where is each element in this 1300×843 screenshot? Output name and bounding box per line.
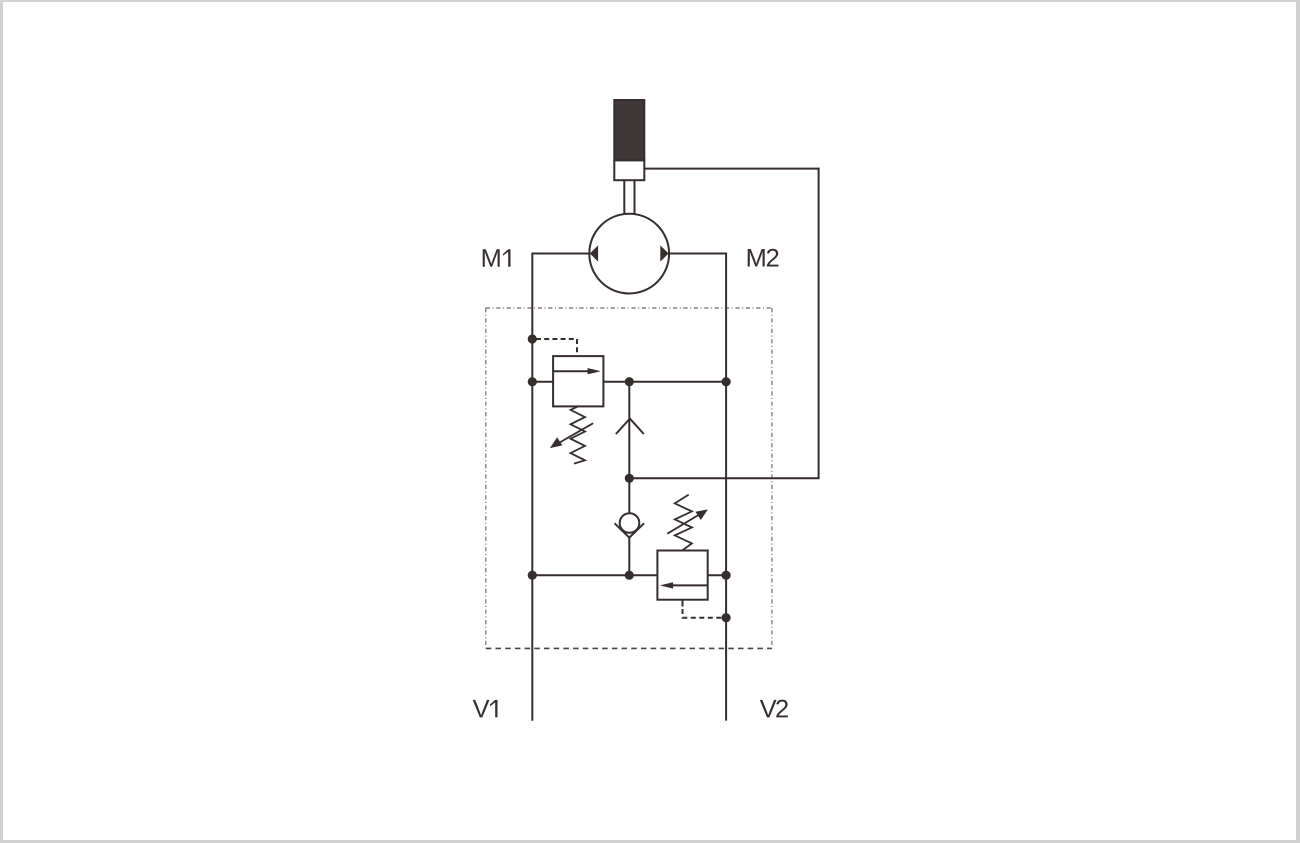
junction node D (RV1 outlet on V2) [722, 377, 731, 386]
wire node B to relief valve RV1 inlet [532, 381, 553, 383]
wire relief valve RV1 outlet to V2 rail [603, 381, 726, 383]
relief valve RV1 flow arrow (right) [554, 368, 601, 374]
junction node E (brake return tee) [625, 474, 634, 483]
relief valve RV2 body [657, 551, 707, 600]
valve block enclosure (dash-dot boundary) [486, 308, 772, 646]
pilot line (dashed) node A to relief valve RV1 spring side [536, 339, 577, 355]
wire M1 port to V1 rail corner [532, 253, 590, 255]
port label M1 [483, 249, 511, 266]
relief valve RV1 body [553, 356, 603, 406]
junction node H (RV2 outlet on V2) [722, 571, 731, 580]
wire relief valve RV2 outlet to V2 rail [708, 574, 726, 576]
junction node I (RV2 pilot on V2) [722, 613, 731, 622]
relief valve RV2 spring (zigzag) [675, 495, 692, 551]
check valve CV1 (ball and seat) [615, 513, 644, 537]
flow direction arrow (chevron) on check branch [616, 419, 644, 434]
relief valve RV2 flow arrow (left) [660, 582, 708, 588]
wire V1 vertical rail [531, 253, 533, 721]
port label V2 [760, 700, 788, 718]
junction node G (rail tee on V1) [528, 571, 537, 580]
port label V1 [473, 700, 498, 717]
junction node C (RV1 outlet / check branch) [625, 377, 634, 386]
port label M2 [748, 249, 779, 267]
relief valve RV2 adjustment arrow [667, 509, 708, 533]
relief valve RV1 adjustment arrow [550, 423, 593, 448]
valve block bottom edge (dashed) [486, 647, 772, 649]
brake cylinder (top actuator) [614, 100, 644, 180]
motor left flow triangle [590, 245, 598, 261]
wire V1 rail to relief valve RV2 inlet [532, 574, 657, 576]
junction node A (pilot tap on V1) [528, 334, 537, 343]
wire brake drain vertical right [818, 168, 820, 479]
wire V2 vertical rail [725, 253, 727, 721]
wire check valve branch vertical [628, 382, 630, 514]
wire check valve outlet vertical [628, 537, 630, 575]
hydraulic motor M (circle) [589, 214, 669, 294]
wire M2 port to V2 rail corner [669, 253, 727, 255]
motor shaft (double line) [624, 180, 634, 215]
junction node F (check outlet tee) [625, 571, 634, 580]
motor right flow triangle [660, 245, 668, 261]
relief valve RV1 spring (zigzag) [571, 406, 586, 463]
pilot line (dashed) relief valve RV2 to node I [683, 600, 723, 618]
wire brake drain horizontal top [644, 168, 818, 170]
junction node B (RV1 inlet on V1) [528, 377, 537, 386]
wire brake drain return horizontal [629, 477, 819, 479]
